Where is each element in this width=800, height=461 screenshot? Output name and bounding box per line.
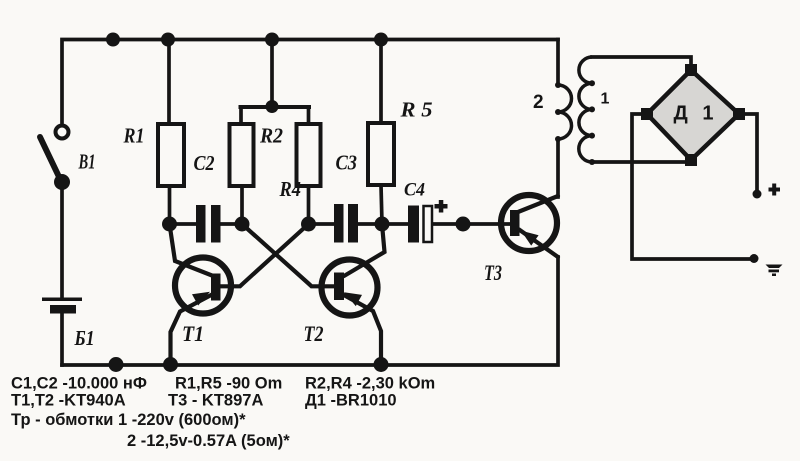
svg-text:R4: R4 — [279, 177, 301, 201]
svg-text:T3: T3 — [484, 260, 502, 285]
svg-text:R2,R4 -2,30 kOm: R2,R4 -2,30 kOm — [305, 375, 435, 393]
svg-text:Б1: Б1 — [74, 326, 95, 350]
svg-text:1: 1 — [601, 91, 610, 108]
svg-text:2: 2 — [533, 92, 544, 113]
svg-text:Д1 -BR1010: Д1 -BR1010 — [305, 392, 397, 410]
svg-text:C3: C3 — [336, 151, 358, 175]
svg-text:T1,T2 -KT940A: T1,T2 -KT940A — [11, 392, 126, 410]
svg-text:C2: C2 — [194, 151, 215, 175]
svg-text:Д 1: Д 1 — [674, 103, 714, 125]
svg-text:C1,C2 -10.000 нФ: C1,C2 -10.000 нФ — [11, 375, 147, 393]
svg-text:R1,R5 -90 Om: R1,R5 -90 Om — [175, 375, 282, 393]
svg-text:Тр - обмотки 1 -220v (600ом)*: Тр - обмотки 1 -220v (600ом)* — [11, 411, 246, 429]
svg-text:T1: T1 — [182, 321, 204, 346]
svg-text:C4: C4 — [404, 180, 425, 201]
svg-text:R 5: R 5 — [399, 98, 432, 122]
svg-text:2 -12,5v-0.57A (5ом)*: 2 -12,5v-0.57A (5ом)* — [127, 432, 290, 450]
svg-text:T3 - KT897A: T3 - KT897A — [168, 392, 263, 410]
svg-text:B1: B1 — [78, 150, 96, 174]
svg-text:R1: R1 — [123, 124, 145, 148]
svg-text:T2: T2 — [304, 321, 324, 346]
svg-text:R2: R2 — [259, 124, 283, 148]
